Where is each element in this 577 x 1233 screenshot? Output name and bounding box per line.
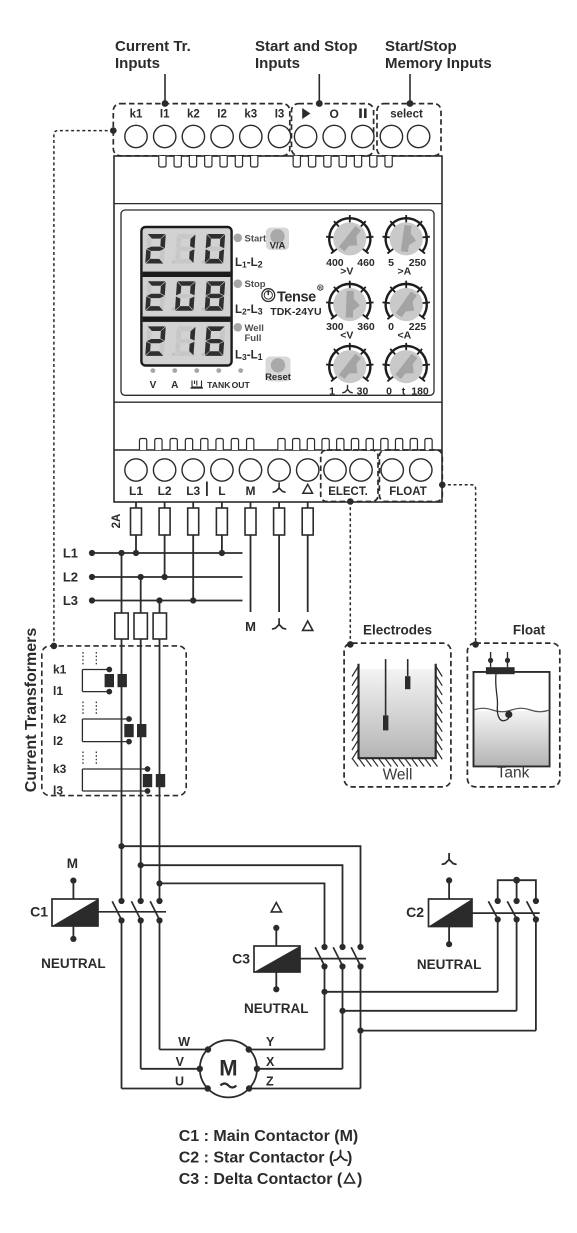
- svg-text:1: 1: [329, 385, 335, 397]
- svg-text:X: X: [266, 1055, 275, 1069]
- svg-text:k2: k2: [53, 712, 67, 726]
- svg-text:L: L: [218, 484, 225, 498]
- svg-text:l1: l1: [53, 684, 63, 698]
- svg-text:>A: >A: [397, 266, 411, 278]
- svg-text:Current Tr.: Current Tr.: [115, 38, 191, 55]
- svg-text:L2: L2: [63, 570, 78, 585]
- svg-text:Inputs: Inputs: [115, 55, 160, 72]
- svg-text:L1: L1: [63, 546, 78, 561]
- svg-text:C1 : Main Contactor (M): C1 : Main Contactor (M): [179, 1128, 359, 1145]
- svg-text:NEUTRAL: NEUTRAL: [244, 1001, 309, 1016]
- svg-text:L2-L3: L2-L3: [235, 304, 263, 317]
- svg-text:NEUTRAL: NEUTRAL: [417, 957, 482, 972]
- svg-text:2A: 2A: [111, 514, 123, 529]
- svg-text:O: O: [330, 107, 339, 121]
- svg-text:Current Transformers: Current Transformers: [23, 628, 40, 793]
- svg-text:k1: k1: [130, 109, 143, 121]
- svg-text:30: 30: [357, 385, 369, 397]
- svg-text:<V: <V: [340, 329, 353, 341]
- svg-text:A: A: [171, 380, 178, 391]
- svg-text:Inputs: Inputs: [255, 55, 300, 72]
- svg-text:I3: I3: [275, 109, 285, 121]
- svg-text:0: 0: [388, 321, 394, 333]
- svg-text:250: 250: [409, 257, 427, 269]
- svg-text:V: V: [176, 1055, 185, 1069]
- svg-text:Tank: Tank: [497, 765, 530, 782]
- svg-text:C3 : Delta Contactor (: C3 : Delta Contactor (: [179, 1171, 343, 1188]
- svg-text:M: M: [246, 484, 256, 498]
- svg-text:I2: I2: [217, 109, 227, 121]
- svg-text:Z: Z: [266, 1075, 274, 1089]
- svg-text:l2: l2: [53, 734, 63, 748]
- svg-text:): ): [347, 1150, 352, 1167]
- svg-text:Tense: Tense: [277, 290, 316, 306]
- svg-text:180: 180: [411, 385, 429, 397]
- svg-text:V/A: V/A: [270, 241, 286, 252]
- svg-text:Electrodes: Electrodes: [363, 623, 432, 638]
- svg-text:I1: I1: [160, 109, 170, 121]
- svg-text:V: V: [150, 380, 157, 391]
- svg-text:): ): [357, 1171, 362, 1188]
- svg-text:k1: k1: [53, 663, 67, 677]
- svg-text:TANK: TANK: [207, 380, 231, 390]
- svg-text:0: 0: [386, 385, 392, 397]
- svg-text:OUT: OUT: [232, 380, 251, 390]
- svg-text:L1: L1: [129, 484, 143, 498]
- svg-text:Float: Float: [513, 623, 546, 638]
- svg-text:C2: C2: [406, 904, 424, 920]
- svg-text:Reset: Reset: [265, 372, 292, 383]
- svg-text:460: 460: [357, 257, 375, 269]
- svg-text:L2: L2: [158, 484, 172, 498]
- svg-text:L3: L3: [63, 593, 78, 608]
- svg-text:t: t: [402, 385, 406, 397]
- svg-text:Stop: Stop: [245, 279, 266, 290]
- svg-text:C1: C1: [30, 904, 48, 920]
- svg-text:<A: <A: [397, 329, 411, 341]
- svg-text:U: U: [175, 1075, 184, 1089]
- svg-text:Start: Start: [245, 233, 267, 244]
- svg-text:C3: C3: [232, 951, 250, 967]
- svg-text:NEUTRAL: NEUTRAL: [41, 956, 106, 971]
- svg-text:Well: Well: [383, 767, 413, 784]
- svg-text:TDK-24YU: TDK-24YU: [270, 306, 321, 318]
- svg-text:k2: k2: [187, 109, 200, 121]
- svg-text:C2 : Star Contactor (: C2 : Star Contactor (: [179, 1150, 335, 1167]
- svg-text:k3: k3: [53, 762, 67, 776]
- svg-text:360: 360: [357, 321, 375, 333]
- svg-text:>V: >V: [340, 266, 353, 278]
- svg-text:225: 225: [409, 321, 427, 333]
- svg-text:select: select: [390, 109, 423, 121]
- svg-text:5: 5: [388, 257, 394, 269]
- svg-text:Y: Y: [266, 1035, 275, 1049]
- svg-text:k3: k3: [244, 109, 257, 121]
- svg-text:M: M: [67, 856, 78, 871]
- svg-text:Full: Full: [245, 333, 262, 344]
- svg-text:Start and Stop: Start and Stop: [255, 38, 358, 55]
- svg-text:Start/Stop: Start/Stop: [385, 38, 457, 55]
- svg-text:L3-L1: L3-L1: [235, 350, 263, 363]
- svg-text:M: M: [245, 619, 256, 634]
- svg-text:l3: l3: [53, 784, 63, 798]
- svg-text:ELECT.: ELECT.: [328, 486, 368, 498]
- svg-text:M: M: [219, 1056, 237, 1081]
- svg-text:L3: L3: [186, 484, 200, 498]
- svg-text:Memory Inputs: Memory Inputs: [385, 55, 492, 72]
- svg-text:L1-L2: L1-L2: [235, 257, 263, 270]
- svg-text:FLOAT: FLOAT: [389, 486, 426, 498]
- svg-text:W: W: [178, 1035, 190, 1049]
